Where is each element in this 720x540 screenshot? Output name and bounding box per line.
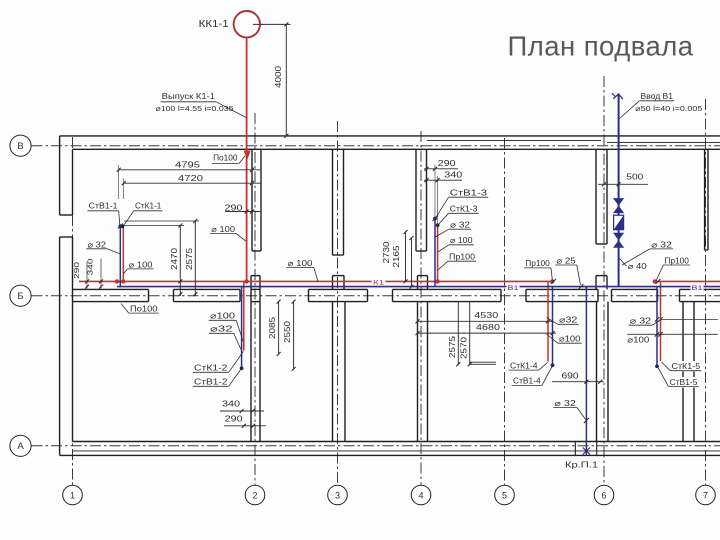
svg-text:4: 4 [418,490,423,500]
svg-text:2570: 2570 [459,336,468,359]
svg-text:⌀ 25: ⌀ 25 [556,256,576,265]
svg-text:⌀ 40: ⌀ 40 [628,262,648,271]
svg-text:⌀ 32: ⌀ 32 [450,221,471,230]
svg-text:⌀ 100: ⌀ 100 [129,260,153,269]
svg-text:⌀100 l=4.55 i=0.035: ⌀100 l=4.55 i=0.035 [156,104,234,113]
svg-text:4530: 4530 [474,310,498,320]
svg-text:Выпуск К1-1: Выпуск К1-1 [162,92,216,101]
svg-text:Кр.П.1: Кр.П.1 [565,461,599,470]
svg-text:КК1-1: КК1-1 [199,19,229,30]
svg-text:⌀50 l=40 i=0.005: ⌀50 l=40 i=0.005 [635,104,702,113]
svg-text:⌀ 100: ⌀ 100 [450,236,473,245]
svg-text:СтК1-1: СтК1-1 [135,202,162,211]
svg-text:⌀32: ⌀32 [210,325,233,334]
svg-text:СтВ1-5: СтВ1-5 [670,378,698,387]
svg-text:2085: 2085 [268,316,277,339]
svg-text:⌀ 32: ⌀ 32 [630,317,652,326]
svg-text:СтК1-4: СтК1-4 [510,361,538,370]
svg-text:СтВ1-2: СтВ1-2 [194,378,228,387]
svg-text:290: 290 [225,414,244,423]
svg-text:В1: В1 [508,285,519,292]
svg-text:290: 290 [438,159,457,168]
svg-text:2470: 2470 [170,247,179,270]
svg-text:340: 340 [86,259,95,276]
svg-text:В1: В1 [692,285,703,292]
svg-text:⌀ 100: ⌀ 100 [211,225,235,234]
svg-text:2575: 2575 [448,335,457,358]
svg-text:Пр100: Пр100 [449,253,476,262]
svg-text:В: В [17,141,23,152]
svg-text:⌀32: ⌀32 [559,316,578,325]
svg-text:СтК1-2: СтК1-2 [194,364,228,373]
svg-text:⌀ 100: ⌀ 100 [288,259,314,268]
svg-text:К1: К1 [373,280,384,287]
svg-text:2575: 2575 [185,247,194,270]
svg-text:⌀100: ⌀100 [559,335,581,344]
svg-text:Ввод В1: Ввод В1 [641,92,674,101]
svg-text:СтВ1-1: СтВ1-1 [89,202,118,211]
svg-text:СтВ1-4: СтВ1-4 [513,377,541,386]
svg-text:⌀100: ⌀100 [627,335,650,344]
svg-text:Пр100: Пр100 [665,256,690,265]
svg-text:6: 6 [601,490,606,500]
svg-text:340: 340 [222,400,241,409]
svg-text:Б: Б [17,291,23,302]
svg-text:7: 7 [703,490,708,500]
svg-text:2: 2 [252,490,257,500]
svg-text:5: 5 [502,490,507,500]
svg-text:2165: 2165 [392,245,401,268]
svg-text:690: 690 [562,371,580,380]
svg-text:⌀ 32: ⌀ 32 [651,240,673,249]
svg-text:2730: 2730 [382,241,391,264]
svg-text:По100: По100 [213,154,238,163]
svg-text:1: 1 [70,490,75,500]
svg-text:2550: 2550 [283,320,292,343]
svg-text:СтК1-5: СтК1-5 [672,362,701,371]
svg-text:500: 500 [626,173,644,182]
svg-text:3: 3 [335,490,340,500]
svg-text:СтВ1-3: СтВ1-3 [450,188,488,197]
svg-text:4000: 4000 [274,65,283,88]
svg-text:⌀100: ⌀100 [210,312,236,321]
svg-text:340: 340 [444,170,463,179]
svg-text:⌀ 32: ⌀ 32 [554,399,576,408]
svg-text:4720: 4720 [178,173,203,183]
svg-text:4680: 4680 [476,322,500,332]
svg-text:СтК1-3: СтК1-3 [450,204,478,213]
svg-text:290: 290 [225,203,244,212]
svg-text:290: 290 [72,262,81,279]
svg-text:По100: По100 [130,304,158,313]
svg-text:⌀ 32: ⌀ 32 [88,240,107,249]
svg-text:А: А [17,441,24,452]
svg-text:План подвала: План подвала [508,31,695,62]
svg-text:Пр100: Пр100 [525,259,550,268]
svg-text:4795: 4795 [175,159,200,169]
